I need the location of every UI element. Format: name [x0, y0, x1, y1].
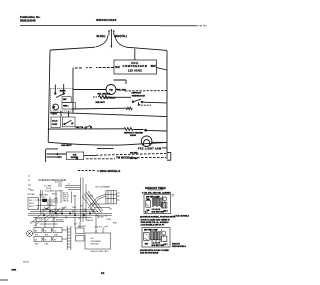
svg-text:SIDE MDL: SIDE MDL: [91, 244, 100, 246]
svg-text:TIMER: TIMER: [60, 91, 67, 93]
svg-text:DEF HTR COMP: DEF HTR COMP: [144, 230, 158, 232]
svg-text:RED: RED: [73, 196, 77, 198]
svg-text:RED: RED: [35, 244, 39, 246]
svg-text:4P: 4P: [118, 193, 121, 195]
svg-text:WD21X: WD21X: [23, 261, 30, 263]
svg-text:ORG: ORG: [72, 207, 77, 209]
svg-text:TO LAMP: TO LAMP: [44, 184, 52, 187]
svg-text:SHOWN WITH DOOR CLOSED: SHOWN WITH DOOR CLOSED: [140, 250, 169, 252]
svg-text:WHT 2: WHT 2: [29, 203, 34, 205]
svg-text:DISPENSER: DISPENSER: [91, 241, 102, 243]
svg-text:BLK WHT: BLK WHT: [55, 182, 63, 184]
svg-text:= SIDE MODELS: = SIDE MODELS: [97, 169, 120, 173]
svg-text:MAIN PWR: MAIN PWR: [39, 193, 48, 196]
svg-text:GRN 18: GRN 18: [63, 201, 69, 203]
svg-text:J1: J1: [68, 183, 70, 185]
svg-text:SIDE BY SIDE ONLY: SIDE BY SIDE ONLY: [91, 251, 110, 253]
svg-text:DISP SOL: DISP SOL: [95, 226, 103, 228]
svg-text:SHOWN IN NORMAL POSITION WITH: SHOWN IN NORMAL POSITION WITH: [140, 216, 176, 219]
svg-text:BRN: BRN: [113, 223, 117, 225]
svg-text:YEL: YEL: [80, 206, 83, 208]
svg-text:ICE: ICE: [73, 154, 77, 156]
svg-text:FRZ LIGHT ASM: FRZ LIGHT ASM: [138, 148, 162, 151]
svg-text:RED WHT: RED WHT: [96, 102, 106, 104]
svg-text:BLK: BLK: [115, 67, 120, 69]
svg-text:ICE: ICE: [109, 208, 113, 210]
svg-text:DEFROST HEATER: DEFROST HEATER: [124, 132, 143, 135]
svg-text:ICE: ICE: [91, 238, 95, 240]
svg-text:DEF: DEF: [63, 99, 67, 101]
svg-text:DOOR CLOSED AND TIMER IN: DOOR CLOSED AND TIMER IN: [141, 218, 171, 221]
svg-text:AUG MTR: AUG MTR: [78, 225, 87, 228]
svg-text:M: M: [53, 105, 56, 109]
svg-text:5995: 5995: [12, 270, 17, 272]
svg-text:SIDE MODELS: SIDE MODELS: [172, 246, 186, 248]
svg-text:D4: D4: [35, 239, 37, 241]
svg-text:WHT: WHT: [45, 235, 49, 237]
svg-text:A1: A1: [35, 229, 37, 232]
svg-text:AND IN RUN MODE: AND IN RUN MODE: [140, 252, 159, 255]
svg-text:BLK(L): BLK(L): [97, 34, 106, 38]
svg-text:ICE CONTAINER: ICE CONTAINER: [95, 185, 110, 188]
svg-text:115/60: 115/60: [130, 135, 137, 137]
svg-text:F6: F6: [54, 239, 56, 241]
svg-text:CONN: CONN: [88, 195, 94, 197]
svg-text:T MTR: T MTR: [51, 114, 58, 116]
svg-text:DEFROST: DEFROST: [132, 93, 142, 95]
svg-text:12: 12: [101, 271, 105, 275]
svg-text:DR SW: DR SW: [98, 216, 104, 218]
svg-text:COIL: COIL: [131, 61, 139, 65]
svg-text:SW: SW: [145, 244, 148, 246]
svg-text:FRZ FAN: FRZ FAN: [28, 193, 36, 196]
svg-text:J4: J4: [105, 216, 107, 218]
svg-text:B2: B2: [45, 230, 47, 232]
svg-text:WHT 8: WHT 8: [47, 204, 52, 206]
svg-text:CONT: CONT: [52, 124, 58, 126]
svg-text:4 SS MODELS DEF 21 FT: 4 SS MODELS DEF 21 FT: [141, 224, 166, 227]
svg-text:SS 2: SS 2: [164, 244, 168, 246]
svg-text:E5: E5: [45, 239, 47, 241]
svg-text:4 T.M. MODELS: 4 T.M. MODELS: [174, 215, 189, 218]
svg-text:WHT: WHT: [151, 66, 157, 68]
svg-text:COLD: COLD: [52, 120, 58, 122]
svg-text:BLK 1: BLK 1: [29, 200, 34, 202]
svg-text:TM 2: TM 2: [164, 211, 168, 213]
svg-text:CONN: CONN: [106, 219, 112, 221]
svg-text:GRD: GRD: [54, 198, 59, 200]
svg-text:RED(YEL): RED(YEL): [114, 34, 127, 38]
svg-text:TMR 2: TMR 2: [63, 106, 68, 108]
svg-text:RED 3: RED 3: [29, 206, 34, 208]
svg-text:TM MODELS: TM MODELS: [116, 156, 133, 160]
svg-text:GRN/YEL: GRN/YEL: [86, 220, 93, 222]
svg-text:WHT/BLK: WHT/BLK: [56, 219, 64, 221]
svg-text:115 60HZ: 115 60HZ: [128, 69, 142, 73]
svg-text:THERMOSTAT: THERMOSTAT: [132, 94, 146, 97]
svg-text:C3: C3: [54, 230, 56, 232]
svg-text:1 2 3 4 5 6: 1 2 3 4 5 6: [152, 208, 161, 211]
svg-text:MOLD: MOLD: [52, 193, 58, 195]
svg-text:TP: TP: [109, 88, 113, 92]
svg-text:COMPRESSOR: COMPRESSOR: [123, 64, 148, 68]
svg-text:LINE NEUT: LINE NEUT: [61, 145, 72, 147]
svg-text:WR53X10023: WR53X10023: [96, 18, 117, 22]
svg-text:SW: SW: [147, 210, 150, 212]
svg-text:ORG: ORG: [45, 244, 50, 246]
svg-text:RED TM: RED TM: [76, 127, 84, 129]
svg-text:5995218045: 5995218045: [20, 19, 36, 23]
svg-text:GND: GND: [30, 190, 35, 192]
svg-text:TML RED: TML RED: [117, 90, 126, 92]
